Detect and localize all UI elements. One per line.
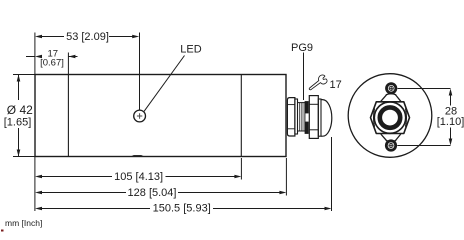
end view: housing circle [348, 74, 432, 158]
cable gland: dome cap [321, 100, 332, 137]
svg-text:PG9: PG9 [291, 42, 313, 54]
bottom extension lines [34, 157, 36, 212]
dim 53 [2.09] line [41, 36, 64, 38]
svg-text:150.5 [5.93]: 150.5 [5.93] [153, 203, 211, 215]
dim 105 [4.13] [41, 176, 112, 178]
LED cross mark [137, 113, 142, 118]
cable gland: washer [295, 99, 298, 134]
end view: gland hex nut [371, 102, 410, 134]
svg-text:53 [2.09]: 53 [2.09] [66, 31, 109, 43]
top boss [381, 95, 401, 101]
dim 28 vertical line + arrows [450, 95, 452, 106]
cable gland: hex nut [309, 96, 318, 139]
svg-text:[1.65]: [1.65] [4, 116, 32, 128]
rear cap line 105mm [240, 75, 242, 157]
svg-text:[1.10]: [1.10] [437, 116, 464, 128]
dim dia42 vertical line + arrows [18, 75, 20, 101]
svg-text:LED: LED [180, 44, 201, 56]
dim 128 [5.04] [41, 192, 126, 194]
dim 28 leader lines [398, 88, 451, 90]
wrench icon [307, 74, 329, 94]
dim 53 extension lines [34, 33, 36, 75]
LED window circle [134, 110, 146, 122]
bottom screw [386, 141, 395, 150]
svg-text:mm [Inch]: mm [Inch] [5, 218, 42, 228]
bottom boss [381, 134, 401, 140]
svg-text:Ø 42: Ø 42 [7, 103, 33, 117]
bottom edge notch [132, 155, 144, 156]
sensor body outline (side view) [35, 75, 286, 157]
end view: cable hole ring [380, 107, 400, 127]
dim 150.5 [5.93] [41, 208, 150, 210]
svg-text:17: 17 [330, 79, 342, 91]
LED leader line [144, 56, 185, 112]
PG9 leader line [303, 53, 305, 101]
dia42 extension lines [13, 74, 35, 76]
end view: hex chamfer arcs [373, 109, 406, 127]
front cap line 17mm [67, 75, 69, 157]
cable gland: threaded section [298, 103, 305, 131]
cable gland: seal ring (black) [305, 102, 308, 114]
red speck bottom-left [1, 230, 4, 232]
svg-text:128 [5.04]: 128 [5.04] [128, 187, 177, 199]
svg-text:[0.67]: [0.67] [40, 58, 64, 69]
svg-text:105 [4.13]: 105 [4.13] [114, 171, 163, 183]
end view: nut chamfer circle [374, 102, 405, 133]
dim 17 arrows [26, 56, 35, 58]
dim 17 extension line [67, 53, 69, 75]
cable gland: locknut flange [287, 98, 295, 136]
top screw [387, 84, 396, 93]
